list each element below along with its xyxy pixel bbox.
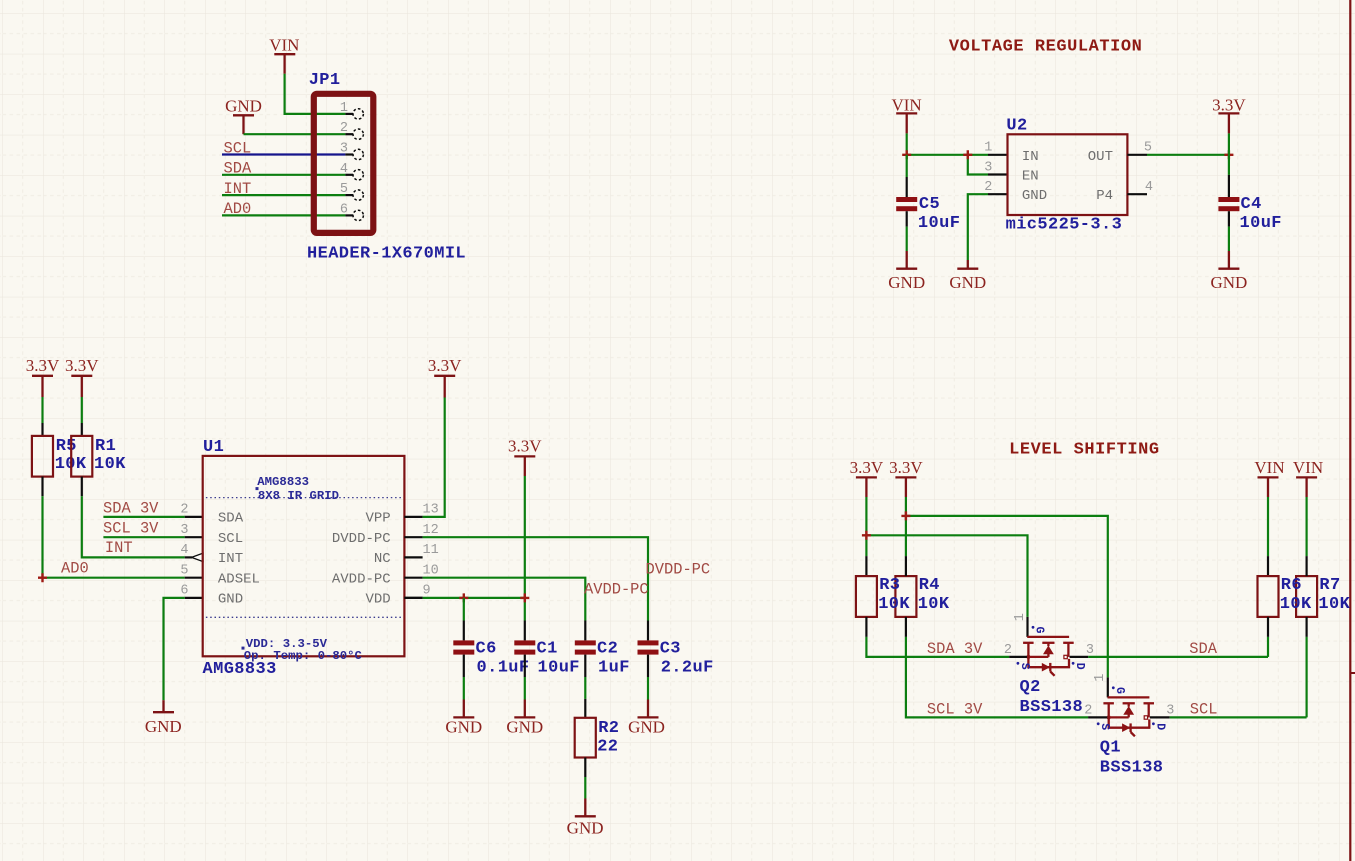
- svg-text:1: 1: [1093, 674, 1108, 682]
- ground GND (C3): [628, 700, 665, 737]
- ground GND (C5): [888, 251, 925, 292]
- svg-text:C3: C3: [660, 640, 681, 659]
- transistor Q1: [1088, 677, 1170, 736]
- svg-text:SCL: SCL: [1190, 701, 1218, 719]
- capacitor C4: [1218, 155, 1282, 233]
- power VIN (U2): [891, 96, 921, 134]
- svg-text:C4: C4: [1241, 195, 1262, 214]
- U1 right pin stubs: [404, 517, 422, 598]
- U1 right pin numbers: [423, 503, 439, 599]
- resistor R1: [71, 423, 126, 496]
- svg-text:4: 4: [180, 543, 188, 558]
- svg-text:R4: R4: [919, 576, 940, 595]
- capacitor C1: [514, 621, 580, 678]
- junction R4/gate: [901, 511, 910, 520]
- Q2 pin 3: [1086, 643, 1094, 658]
- svg-text:22: 22: [597, 737, 618, 756]
- svg-text:10K: 10K: [878, 595, 910, 614]
- resistor R6: [1258, 556, 1279, 637]
- svg-text:3.3V: 3.3V: [26, 356, 60, 375]
- connector JP1: [307, 71, 466, 264]
- svg-text:VPP: VPP: [365, 511, 390, 527]
- svg-text:R2: R2: [598, 719, 619, 738]
- wire R6 down to SDA row: [1267, 637, 1269, 657]
- JP1 pin 6: [340, 202, 364, 220]
- junction R3/gate: [862, 531, 871, 540]
- svg-text:5: 5: [1144, 141, 1152, 156]
- svg-text:10K: 10K: [918, 595, 950, 614]
- svg-text:D: D: [1153, 723, 1166, 730]
- svg-text:SCL 3V: SCL 3V: [927, 701, 983, 719]
- svg-text:G: G: [1113, 687, 1126, 694]
- resistor R3: [856, 556, 877, 637]
- svg-text:1uF: 1uF: [598, 658, 630, 677]
- svg-text:10uF: 10uF: [538, 658, 580, 677]
- power 3.3V (VDD): [508, 437, 542, 477]
- U1 attribute text AMG8833 / 8X8 IR GRID: [256, 475, 340, 503]
- resistor R4: [895, 556, 916, 637]
- wire C4 to GND: [1228, 227, 1230, 251]
- svg-text:0.1uF: 0.1uF: [477, 658, 530, 677]
- node SDA: [224, 160, 252, 178]
- node SCL 3V (LS): [927, 701, 983, 719]
- Q1 D label: [1152, 722, 1166, 730]
- svg-text:C1: C1: [537, 640, 558, 659]
- svg-text:3.3V: 3.3V: [850, 458, 884, 477]
- U2 pin 4 stub: [1127, 193, 1147, 195]
- ground GND (R2): [567, 799, 604, 838]
- power 3.3V (U2 out): [1212, 96, 1246, 155]
- power 3.3V (R4): [889, 458, 923, 556]
- wire AD0 to JP1 pin 6: [222, 214, 353, 216]
- wire SCL row (Q1 drain to R7): [1170, 716, 1307, 718]
- wire R7 down to SCL row: [1305, 637, 1307, 718]
- node AD0: [224, 200, 252, 218]
- junction VDD/C1: [520, 593, 529, 602]
- ground GND (JP1): [225, 97, 262, 135]
- svg-text:IN: IN: [1022, 149, 1039, 165]
- svg-text:8X8 IR GRID: 8X8 IR GRID: [258, 489, 339, 503]
- R6 labels: [1280, 576, 1312, 614]
- svg-text:2: 2: [340, 121, 348, 136]
- power VIN (JP1): [269, 36, 299, 74]
- svg-text:1: 1: [1013, 613, 1028, 621]
- JP1 pin 3: [340, 142, 364, 160]
- resistor R2: [575, 699, 620, 777]
- wire U1 pin 6 to GND: [164, 598, 203, 700]
- svg-text:OUT: OUT: [1088, 149, 1113, 165]
- svg-text:5: 5: [340, 182, 348, 197]
- junction AD0: [38, 573, 47, 582]
- svg-text:D: D: [1073, 663, 1086, 670]
- wire 3.3V to U1 VPP: [423, 398, 445, 517]
- Q2 G label: [1032, 626, 1046, 634]
- Q2 pin 2: [1004, 643, 1012, 658]
- svg-text:AVDD-PC: AVDD-PC: [332, 572, 391, 588]
- svg-text:Q1: Q1: [1100, 739, 1121, 758]
- ground GND (U1 pin6): [145, 700, 182, 736]
- svg-text:6: 6: [180, 584, 188, 599]
- Q2 S label: [1017, 662, 1031, 670]
- wire VIN to U2 IN: [907, 133, 1008, 154]
- svg-text:DVDD-PC: DVDD-PC: [332, 531, 391, 547]
- svg-text:3.3V: 3.3V: [508, 437, 542, 456]
- frame border right: [1350, 0, 1355, 861]
- wire EN branch: [968, 155, 1008, 175]
- wire GND to JP1 pin 2: [244, 133, 354, 135]
- ground GND (U2 pin2): [949, 260, 986, 292]
- svg-text:3.3V: 3.3V: [889, 458, 923, 477]
- svg-text:10K: 10K: [1280, 595, 1312, 614]
- U1 pin4 INT input triangle: [185, 553, 203, 561]
- svg-text:2: 2: [180, 503, 188, 518]
- R7 labels: [1318, 576, 1350, 614]
- svg-text:C2: C2: [597, 640, 618, 659]
- wire SCL 3V to U1 pin 3: [103, 536, 202, 538]
- svg-text:VDD: VDD: [365, 592, 390, 608]
- IC U1: [203, 438, 405, 679]
- svg-text:4: 4: [1145, 180, 1153, 195]
- Q2 name/value: [1020, 678, 1084, 717]
- svg-text:GND: GND: [888, 273, 925, 292]
- svg-text:VIN: VIN: [1254, 458, 1284, 477]
- ground GND (C6): [445, 700, 482, 737]
- svg-text:GND: GND: [628, 718, 665, 737]
- svg-text:HEADER-1X670MIL: HEADER-1X670MIL: [307, 245, 466, 264]
- wire R3 node to Q2 gate: [866, 535, 1027, 617]
- junction IN/EN: [963, 150, 972, 159]
- svg-text:AMG8833: AMG8833: [257, 475, 309, 489]
- wire R4 node to Q1 gate: [906, 516, 1108, 678]
- wire R4 to SCL 3V row: [906, 637, 1088, 718]
- svg-text:DVDD-PC: DVDD-PC: [646, 560, 711, 578]
- Q1 S label: [1097, 722, 1111, 730]
- svg-text:SCL 3V: SCL 3V: [103, 520, 159, 538]
- svg-text:R7: R7: [1319, 576, 1340, 595]
- svg-text:INT: INT: [218, 551, 243, 567]
- wire SCL to JP1 pin 3: [222, 153, 353, 155]
- U1 left pin numbers: [180, 503, 188, 599]
- capacitor C6: [453, 598, 529, 677]
- JP1 pin 5: [340, 182, 364, 200]
- svg-text:GND: GND: [225, 97, 262, 116]
- svg-text:AVDD-PC: AVDD-PC: [584, 580, 649, 598]
- svg-text:Q2: Q2: [1020, 678, 1041, 697]
- svg-text:3: 3: [1086, 643, 1094, 658]
- svg-text:JP1: JP1: [309, 71, 341, 90]
- wire C5 to GND: [906, 227, 908, 251]
- svg-text:11: 11: [423, 543, 439, 558]
- svg-text:3.3V: 3.3V: [428, 356, 462, 375]
- resistor R5: [32, 423, 87, 496]
- svg-text:G: G: [1033, 627, 1046, 634]
- U1 right pin names: [332, 511, 391, 608]
- capacitor C5: [896, 155, 960, 233]
- wire 3.3V down to VDD net / C1: [524, 476, 526, 621]
- svg-text:Op. Temp: 0-80°C: Op. Temp: 0-80°C: [244, 649, 363, 663]
- node DVDD-PC: [646, 560, 711, 578]
- node SCL: [224, 139, 252, 157]
- wire VIN to JP1 pin 1: [285, 74, 353, 114]
- svg-text:GND: GND: [1210, 273, 1247, 292]
- svg-text:R5: R5: [56, 437, 77, 456]
- power 3.3V (R3): [850, 458, 884, 556]
- svg-text:13: 13: [423, 503, 439, 518]
- JP1 pin 2: [340, 121, 364, 139]
- svg-text:10K: 10K: [94, 455, 126, 474]
- wire C1 to GND: [524, 677, 526, 700]
- svg-text:1: 1: [340, 101, 348, 116]
- R4 labels: [918, 576, 950, 614]
- ground GND (C1): [506, 700, 543, 737]
- svg-text:SDA: SDA: [218, 511, 244, 527]
- svg-text:GND: GND: [218, 592, 243, 608]
- svg-text:S: S: [1018, 663, 1031, 670]
- svg-text:GND: GND: [445, 718, 482, 737]
- svg-text:3: 3: [180, 523, 188, 538]
- wire R2 to GND: [584, 777, 586, 799]
- capacitor C3: [638, 621, 714, 678]
- power 3.3V (R1): [65, 356, 99, 423]
- svg-text:GND: GND: [1022, 188, 1047, 204]
- svg-text:12: 12: [423, 523, 439, 538]
- svg-text:2: 2: [1084, 703, 1092, 718]
- svg-text:10uF: 10uF: [918, 214, 960, 233]
- wire SDA 3V to U1 pin 2: [103, 516, 202, 518]
- U1 left pin names: [218, 511, 260, 608]
- svg-text:mic5225-3.3: mic5225-3.3: [1006, 216, 1123, 235]
- svg-text:BSS138: BSS138: [1100, 759, 1164, 778]
- svg-text:BSS138: BSS138: [1020, 698, 1084, 717]
- svg-text:GND: GND: [567, 819, 604, 838]
- Q1 pin 3: [1166, 703, 1174, 718]
- Q1 G label: [1112, 686, 1126, 694]
- Q2 D label: [1072, 662, 1086, 670]
- U1 attribute text VDD / Op.Temp: [242, 637, 363, 663]
- transistor Q2: [1009, 617, 1088, 676]
- svg-text:C6: C6: [476, 640, 497, 659]
- svg-text:INT: INT: [105, 539, 133, 557]
- U2 pin 5 stub + wire OUT to 3.3V: [1127, 154, 1229, 156]
- wire AD0 to U1 pin 5: [43, 577, 203, 579]
- node SCL (LS): [1190, 701, 1218, 719]
- svg-text:SDA: SDA: [1189, 640, 1217, 658]
- svg-text:3: 3: [340, 142, 348, 157]
- wire SDA row (Q2 drain to R6): [1088, 656, 1268, 658]
- svg-text:VIN: VIN: [269, 36, 299, 55]
- U2 pin names: [1022, 149, 1113, 204]
- svg-text:2: 2: [1004, 643, 1012, 658]
- svg-text:SDA 3V: SDA 3V: [103, 499, 159, 517]
- svg-text:3.3V: 3.3V: [65, 356, 99, 375]
- junction VDD/C6: [459, 593, 468, 602]
- wire U1 pin 12 (DVDD-PC) to C3: [423, 537, 648, 620]
- svg-text:1: 1: [984, 141, 992, 156]
- svg-text:GND: GND: [949, 273, 986, 292]
- svg-text:2.2uF: 2.2uF: [661, 658, 714, 677]
- wire INT to JP1 pin 5: [222, 194, 353, 196]
- power VIN (R7): [1293, 458, 1323, 556]
- svg-text:9: 9: [423, 584, 431, 599]
- svg-text:5: 5: [180, 564, 188, 579]
- svg-text:3: 3: [1166, 703, 1174, 718]
- wire C3 to GND: [647, 677, 649, 700]
- wire SDA to JP1 pin 4: [222, 174, 353, 176]
- wire U1 pin 10 (AVDD-PC) to C2: [423, 578, 586, 621]
- node SCL 3V: [103, 520, 159, 538]
- svg-text:R6: R6: [1281, 576, 1302, 595]
- svg-text:P4: P4: [1096, 188, 1113, 204]
- svg-text:10uF: 10uF: [1240, 214, 1282, 233]
- wire R1 to INT: [82, 496, 185, 557]
- wire C6 to GND: [463, 677, 465, 700]
- title LEVEL SHIFTING: [1009, 441, 1160, 460]
- svg-text:3.3V: 3.3V: [1212, 96, 1246, 115]
- node AD0 (U1): [61, 560, 89, 578]
- IC U2: [1006, 117, 1128, 235]
- Q2 pin 1 label: [1013, 613, 1028, 621]
- wire C2 to R2: [584, 677, 586, 699]
- Q1 pin 1 label: [1093, 674, 1108, 682]
- svg-text:VOLTAGE REGULATION: VOLTAGE REGULATION: [949, 38, 1143, 57]
- junction OUT/C4: [1224, 150, 1233, 159]
- svg-text:10K: 10K: [1318, 595, 1350, 614]
- svg-text:SCL: SCL: [218, 531, 243, 547]
- svg-text:3: 3: [984, 160, 992, 175]
- svg-text:S: S: [1098, 723, 1111, 730]
- ground GND (C4): [1210, 251, 1247, 292]
- svg-text:R3: R3: [879, 576, 900, 595]
- svg-text:U1: U1: [203, 438, 224, 457]
- node SDA (LS): [1189, 640, 1217, 658]
- svg-text:6: 6: [340, 202, 348, 217]
- svg-text:AD0: AD0: [61, 560, 89, 578]
- junction VIN/C5: [902, 150, 911, 159]
- node SDA 3V: [103, 499, 159, 517]
- U2 pin numbers: [984, 141, 1153, 196]
- svg-text:VIN: VIN: [891, 96, 921, 115]
- svg-text:10: 10: [423, 564, 439, 579]
- svg-text:GND: GND: [506, 718, 543, 737]
- node AVDD-PC: [584, 580, 649, 598]
- wire U1 pin 9 (VDD): [404, 597, 524, 599]
- svg-text:LEVEL SHIFTING: LEVEL SHIFTING: [1009, 441, 1160, 460]
- svg-text:GND: GND: [145, 717, 182, 736]
- Q1 name/value: [1100, 739, 1164, 778]
- JP1 pin 1: [340, 101, 364, 119]
- svg-text:U2: U2: [1006, 117, 1027, 136]
- node INT: [224, 180, 252, 198]
- node INT (U1): [105, 539, 133, 557]
- U1 internal dotted separators: [206, 498, 402, 618]
- power VIN (R6): [1254, 458, 1284, 556]
- power 3.3V (R5): [26, 356, 60, 423]
- JP1 pin 4: [340, 162, 364, 180]
- svg-text:4: 4: [340, 162, 348, 177]
- node SDA 3V (LS): [927, 640, 983, 658]
- svg-text:ADSEL: ADSEL: [218, 572, 260, 588]
- wire U2 GND pin to ground: [968, 194, 1008, 260]
- svg-text:NC: NC: [374, 551, 391, 567]
- power 3.3V (VPP): [428, 356, 462, 398]
- Q1 pin 2: [1084, 703, 1092, 718]
- svg-text:VIN: VIN: [1293, 458, 1323, 477]
- resistor R7: [1296, 556, 1317, 637]
- capacitor C2: [575, 621, 630, 678]
- title VOLTAGE REGULATION: [949, 38, 1143, 57]
- R3 labels: [878, 576, 910, 614]
- svg-text:R1: R1: [95, 437, 116, 456]
- wire R5 to AD0: [41, 496, 43, 578]
- wire R3 to SDA 3V row: [866, 637, 1009, 657]
- svg-text:2: 2: [984, 180, 992, 195]
- svg-text:EN: EN: [1022, 169, 1039, 185]
- svg-text:SDA 3V: SDA 3V: [927, 640, 983, 658]
- svg-text:C5: C5: [919, 195, 940, 214]
